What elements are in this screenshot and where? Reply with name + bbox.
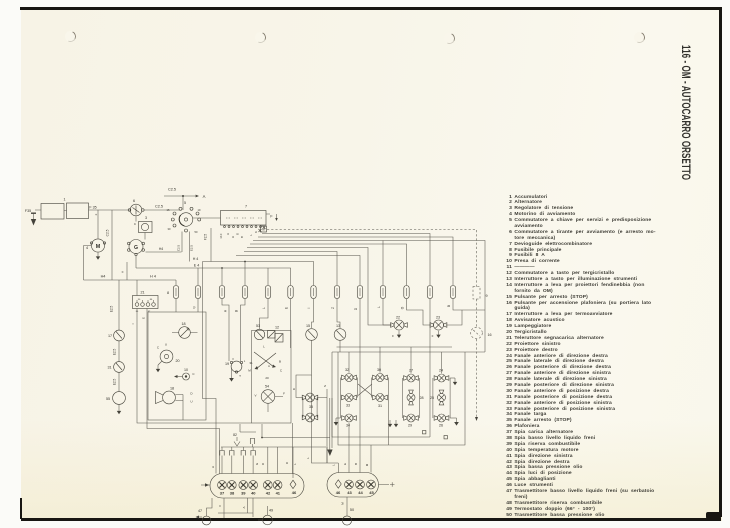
lamp 27 <box>404 369 419 383</box>
svg-text:L: L <box>262 307 266 309</box>
svg-text:E2.5: E2.5 <box>113 378 117 385</box>
svg-text:+: + <box>95 212 98 217</box>
svg-text:22: 22 <box>396 316 400 320</box>
svg-text:I: I <box>131 323 135 324</box>
svg-text:H: H <box>211 466 215 468</box>
svg-text:K: K <box>254 231 258 233</box>
fuse 8A x360 <box>357 286 362 299</box>
dashed wire <box>476 299 478 327</box>
svg-text:D: D <box>190 392 193 396</box>
dashed bus wire to lamp circuit <box>267 230 477 288</box>
lever switch 14 cross <box>248 345 283 381</box>
svg-text:A: A <box>203 194 206 199</box>
svg-text:H 4: H 4 <box>150 275 156 279</box>
pod feed wires right side <box>211 447 297 478</box>
svg-text:X: X <box>232 358 234 361</box>
svg-text:23: 23 <box>436 316 440 320</box>
svg-text:E: E <box>285 307 289 309</box>
svg-text:I2.0: I2.0 <box>219 233 223 238</box>
stop lamp 35 label <box>309 405 313 409</box>
svg-text:B: B <box>447 305 451 307</box>
svg-text:54: 54 <box>265 385 269 389</box>
svg-text:3: 3 <box>145 216 147 220</box>
battery minus lead F35 with ground arrow <box>25 209 36 226</box>
svg-text:E2.5: E2.5 <box>190 245 194 252</box>
arrow into left pod <box>201 483 210 486</box>
lamp rails col1 <box>340 378 357 419</box>
wire fuse453 to lamp 23 right <box>446 299 485 326</box>
svg-text:A: A <box>224 309 228 312</box>
ground below motor 4 <box>96 253 100 260</box>
punch hole 1 <box>65 31 76 42</box>
svg-text:45: 45 <box>369 490 374 495</box>
wire 15 to stop lamps <box>293 341 312 398</box>
svg-text:D: D <box>285 461 289 464</box>
svg-text:H4: H4 <box>159 247 163 251</box>
svg-text:20: 20 <box>175 359 179 363</box>
instrument pod right <box>327 473 379 498</box>
svg-text:L: L <box>244 360 246 363</box>
wire 3 to alternator <box>144 233 146 240</box>
sender 47 <box>196 498 213 525</box>
wire Z to right pod <box>326 447 328 463</box>
bottom border <box>21 518 721 521</box>
svg-text:20: 20 <box>265 376 269 380</box>
svg-text:35: 35 <box>309 405 313 409</box>
power socket 10 <box>174 368 195 380</box>
svg-text:53: 53 <box>256 324 260 328</box>
fuse 8A x222 <box>219 286 224 299</box>
svg-text:C: C <box>192 372 195 376</box>
svg-text:E 4: E 4 <box>194 264 199 268</box>
svg-text:B: B <box>235 310 239 312</box>
fuse 8A x313.5 <box>311 286 316 299</box>
stop lamp 35 lower <box>302 413 318 422</box>
terminal labels under 7 <box>219 231 258 238</box>
svg-text:31: 31 <box>249 361 253 365</box>
svg-text:8: 8 <box>167 291 169 295</box>
wire switch 5 lower stubs <box>177 232 194 262</box>
svg-text:C2.5: C2.5 <box>106 229 110 236</box>
svg-text:Q: Q <box>192 306 196 309</box>
svg-text:L: L <box>263 345 265 349</box>
svg-text:29: 29 <box>408 424 412 428</box>
svg-text:L: L <box>293 463 297 465</box>
battery plus lead label F35 + <box>89 206 97 218</box>
battery 1 (accumulatori) <box>35 198 98 220</box>
svg-text:26: 26 <box>439 424 443 428</box>
gauge 46 diamond left pod <box>290 480 296 488</box>
dashed wire lower <box>475 339 478 421</box>
svg-text:16: 16 <box>487 333 491 337</box>
telltale 45 <box>367 480 376 489</box>
svg-text:Z: Z <box>324 384 326 388</box>
lamp 31 <box>373 394 388 409</box>
svg-text:18: 18 <box>170 387 174 391</box>
svg-text:49: 49 <box>269 509 273 513</box>
stop button 15 <box>306 324 318 340</box>
lamp column feeds <box>349 347 442 373</box>
svg-text:82: 82 <box>233 433 237 437</box>
svg-text:27: 27 <box>409 369 413 373</box>
svg-text:47: 47 <box>198 509 202 513</box>
terminal row under 7 <box>224 225 266 232</box>
dashed fuse 9 <box>473 287 488 300</box>
svg-text:46: 46 <box>336 490 341 495</box>
switch 53 circle <box>254 324 264 340</box>
fuse 8A x453 <box>450 286 455 299</box>
wire A to flasher <box>222 299 229 362</box>
lamp 30 <box>373 368 388 382</box>
ground below headlamp 23 <box>432 331 441 338</box>
dashed plafoniera switch 16 <box>471 327 492 339</box>
wire C2.5 vertical from junction <box>106 210 113 280</box>
lamp 33 <box>342 394 357 408</box>
svg-text:F2.5: F2.5 <box>204 234 208 241</box>
ground right of lamp 26 <box>450 418 459 426</box>
telltale 41 <box>273 481 282 490</box>
svg-text:V: V <box>254 394 256 398</box>
svg-text:21: 21 <box>140 291 144 295</box>
svg-text:41: 41 <box>276 491 281 496</box>
svg-text:F: F <box>392 334 394 338</box>
svg-text:50: 50 <box>350 508 354 512</box>
svg-text:43: 43 <box>347 490 352 495</box>
svg-text:55: 55 <box>106 397 110 401</box>
stub fuse283 x383 <box>382 241 384 286</box>
svg-text:E: E <box>343 463 347 465</box>
wire 21 to H4 bus <box>136 280 138 296</box>
stop lamp rails <box>303 384 327 463</box>
svg-text:4: 4 <box>86 246 88 250</box>
enclosure box bottom right B <box>338 352 465 445</box>
wires below left pod <box>218 498 253 518</box>
wiper motor 20 <box>156 343 180 373</box>
svg-text:18: 18 <box>181 322 185 326</box>
svg-text:M: M <box>96 244 101 250</box>
cab equipment enclosure <box>148 312 206 420</box>
terminal squares <box>423 431 448 439</box>
svg-text:H 4: H 4 <box>193 257 199 261</box>
wire E to lever box <box>285 299 291 349</box>
stub fuse x245 <box>244 262 246 286</box>
svg-text:C2.5: C2.5 <box>177 245 181 252</box>
lamp 28 vertical <box>407 390 424 405</box>
svg-text:F: F <box>270 215 273 219</box>
fuse hooks above pod <box>220 447 256 474</box>
wire 6 down to regulator 3 <box>135 216 137 222</box>
ground below lamp29 area <box>388 420 398 427</box>
lamp 34 <box>342 414 357 428</box>
svg-text:46: 46 <box>292 490 297 495</box>
ground left of lamp 34 <box>334 418 341 426</box>
wire battery plus to motor and switch run <box>98 210 130 239</box>
svg-text:28: 28 <box>419 396 423 400</box>
svg-text:33: 33 <box>346 404 350 408</box>
spark arrow 52 <box>233 433 240 446</box>
wire Z to switch 13 <box>331 299 340 329</box>
wire 6 to switch 5 <box>144 205 180 211</box>
svg-text:L: L <box>377 306 381 308</box>
lamp bus y352 <box>332 351 485 353</box>
wire B to flasher <box>235 299 246 362</box>
pod right feed labels <box>332 463 370 466</box>
svg-text:19: 19 <box>225 362 229 366</box>
telltale 40 <box>249 481 258 490</box>
svg-text:B: B <box>279 360 281 364</box>
svg-text:19: 19 <box>198 208 201 212</box>
left pod labels <box>220 490 297 496</box>
svg-text:31: 31 <box>107 366 111 370</box>
svg-text:A: A <box>268 364 270 368</box>
svg-text:17: 17 <box>108 334 112 338</box>
svg-text:F 35: F 35 <box>89 206 96 210</box>
wire alternator down <box>135 256 137 268</box>
fuse hook mid <box>250 439 254 448</box>
main fuse 8 <box>167 286 179 299</box>
ground below 55 <box>117 405 121 415</box>
svg-text:F35: F35 <box>25 209 31 213</box>
switch 13 <box>334 324 346 340</box>
wire group to pod <box>292 423 294 474</box>
wire A stub to relay <box>121 262 128 280</box>
fuse 8A x406.5 <box>404 286 409 299</box>
svg-text:7: 7 <box>245 205 247 209</box>
headlamp 22 (proiettore sinistro) <box>391 316 408 331</box>
svg-text:34: 34 <box>346 424 350 428</box>
svg-text:30: 30 <box>138 299 141 301</box>
stub fuse x222 <box>221 268 223 286</box>
wire 15 drop to pods <box>306 375 338 473</box>
svg-text:32: 32 <box>345 368 349 372</box>
svg-text:B: B <box>354 463 358 465</box>
svg-text:M: M <box>365 463 369 466</box>
fuse 8A x430 <box>427 286 432 299</box>
headlamp 23 (proiettore destro) <box>430 316 447 331</box>
lamp 29 <box>404 414 419 428</box>
svg-text:31: 31 <box>378 404 382 408</box>
punch hole 2 <box>255 32 266 43</box>
wire 13 down <box>339 341 341 353</box>
svg-text:12: 12 <box>275 326 279 330</box>
telltale 38 <box>227 481 236 490</box>
wire fuse198 to box <box>192 299 198 313</box>
fuse 8A x290.5 <box>288 286 293 299</box>
wire feed left pod horizontal <box>221 446 326 448</box>
bus wire y237 <box>258 237 453 286</box>
svg-text:42: 42 <box>266 491 271 496</box>
bus wire y251 <box>244 252 337 286</box>
switch 12 relay <box>268 326 284 343</box>
svg-text:U: U <box>226 233 230 235</box>
svg-text:V: V <box>218 505 222 507</box>
telltale 42 <box>263 481 272 490</box>
svg-text:C2.5: C2.5 <box>168 188 176 192</box>
charge relay 21 <box>133 291 159 314</box>
svg-text:39: 39 <box>241 491 246 496</box>
wire F output with down arrow <box>266 214 278 221</box>
oil sender 50 <box>341 497 355 525</box>
fuse 8A x268 <box>265 286 270 299</box>
stub fuse x198 <box>197 268 199 286</box>
instrument pod left <box>210 474 304 499</box>
wire 21 down short <box>142 309 220 474</box>
telltale 39 <box>239 481 248 490</box>
bus wire H4 y261 <box>193 257 314 286</box>
wire switch 5 to devioguide 7 <box>193 217 221 219</box>
svg-text:85: 85 <box>136 311 139 313</box>
svg-text:O: O <box>401 306 405 309</box>
svg-text:25: 25 <box>430 396 434 400</box>
top border <box>20 7 722 10</box>
switch group enclosure <box>252 331 292 424</box>
wire motor to H4 bus <box>84 246 92 281</box>
lamp 32 <box>342 368 357 382</box>
lamp rails col3 <box>402 378 419 418</box>
starter motor M 4 <box>86 239 106 252</box>
svg-text:A: A <box>242 506 246 508</box>
alternator G 2 <box>128 240 145 256</box>
telltale 43 <box>345 480 354 489</box>
svg-text:10: 10 <box>184 368 188 372</box>
right border <box>719 8 722 517</box>
wire E2.5 middle <box>113 341 120 362</box>
bus wire y268 stub <box>267 268 269 286</box>
svg-text:40: 40 <box>251 491 256 496</box>
right pod labels <box>336 490 375 495</box>
ground below flasher 19 <box>229 368 241 382</box>
crossover wires <box>358 384 372 396</box>
gauge 46 diamond right pod <box>335 480 341 488</box>
svg-text:A: A <box>121 271 125 273</box>
lamp 26 <box>434 414 449 428</box>
wire from lamp54 F to bus <box>240 424 330 438</box>
wire L to switch 53 <box>260 299 269 330</box>
wire C2.5 arrow to node A <box>164 188 206 211</box>
wire fuse430 long drop <box>429 299 431 438</box>
fuse 8A x337 <box>334 286 339 299</box>
ground right of lamp 24 <box>450 378 457 385</box>
svg-text:G: G <box>134 245 138 251</box>
svg-text:86: 86 <box>150 299 153 301</box>
svg-text:37: 37 <box>220 491 225 496</box>
telltale 44 <box>356 480 365 489</box>
vertical page title <box>679 45 691 180</box>
arrow plus right pod <box>379 482 395 486</box>
svg-text:50: 50 <box>195 230 198 234</box>
svg-text:L: L <box>332 464 336 466</box>
svg-text:1: 1 <box>63 198 65 202</box>
interior lamp 36 circle <box>172 322 198 338</box>
svg-text:L: L <box>249 234 253 236</box>
flasher 19 (lampeggiatore) <box>225 358 246 373</box>
svg-text:Z: Z <box>331 307 335 309</box>
svg-text:6: 6 <box>133 199 135 203</box>
bus wire y240 <box>253 241 485 353</box>
wire to headlamp 22 <box>377 299 392 326</box>
svg-text:5: 5 <box>184 201 186 205</box>
svg-text:F: F <box>283 392 285 396</box>
legend list <box>503 195 671 519</box>
svg-text:I: I <box>307 307 311 308</box>
svg-text:E2.5: E2.5 <box>113 348 117 355</box>
thermo switch 17 <box>108 330 124 341</box>
wire fuse176 to box <box>175 299 177 313</box>
svg-text:E2.5: E2.5 <box>110 305 114 312</box>
bold feed arrow between pods <box>327 398 332 456</box>
svg-text:T: T <box>239 374 241 378</box>
wire H4 alternator right <box>146 247 182 252</box>
bus wire y233 <box>262 234 430 286</box>
svg-text:9: 9 <box>485 294 487 298</box>
wire E2.5 upper <box>110 280 120 330</box>
stub fuse x176 <box>175 280 177 286</box>
ground below headlamp 22 <box>392 331 401 338</box>
voltage regulator 3 <box>134 216 152 233</box>
svg-text:C2.5: C2.5 <box>155 205 163 209</box>
bus wire y255 <box>236 256 360 286</box>
punch hole 4 <box>634 32 645 43</box>
lamp bus y347 <box>337 346 453 348</box>
svg-text:13: 13 <box>336 324 340 328</box>
component 55 circle <box>106 392 125 405</box>
bottom-left page edge <box>20 498 22 519</box>
lamp 24 <box>434 369 449 383</box>
bus wire y244 <box>250 244 407 286</box>
wire to headlamp 23 left <box>401 299 432 326</box>
key switch 5 <box>167 201 201 234</box>
terminal M at dashed start <box>261 226 267 232</box>
component 31 circle <box>107 362 124 373</box>
long wire left drop <box>203 262 217 474</box>
fuse 8A x198 <box>195 286 200 299</box>
svg-text:M: M <box>341 502 345 505</box>
svg-text:U: U <box>165 343 167 347</box>
svg-text:C: C <box>134 222 137 226</box>
svg-text:H: H <box>293 387 295 391</box>
telltale 37 <box>218 481 227 490</box>
fuse 8A x245 <box>242 286 247 299</box>
devioguide elettrocombinatore 7 <box>221 205 267 226</box>
svg-text:24: 24 <box>439 369 443 373</box>
fuse 8A x383 <box>380 286 385 299</box>
bus wire E4 y268 <box>136 261 291 286</box>
thermostat 49 <box>253 506 273 525</box>
svg-text:F: F <box>432 334 434 338</box>
svg-text:O: O <box>236 232 240 235</box>
wire E2.5 lower <box>113 373 120 392</box>
bottom-right corner blob <box>706 512 721 519</box>
svg-text:U: U <box>190 400 192 404</box>
label F2.5 vertical <box>204 228 212 262</box>
wire 21 down long to pod <box>131 309 252 424</box>
svg-text:E: E <box>142 317 146 319</box>
lamp 25 vertical <box>430 390 446 405</box>
svg-text:M: M <box>248 369 251 373</box>
svg-text:B: B <box>240 236 244 238</box>
svg-text:30: 30 <box>168 227 171 231</box>
svg-text:C: C <box>157 346 160 350</box>
pull switch 6 <box>128 199 144 216</box>
svg-text:L: L <box>306 457 310 459</box>
svg-text:30: 30 <box>377 368 381 372</box>
horn 18 (avvisatore acustico) <box>156 387 194 421</box>
svg-text:O: O <box>261 462 265 465</box>
lamp rails col4 <box>433 378 450 418</box>
svg-text:C: C <box>280 369 283 373</box>
drops to pod right <box>349 423 371 473</box>
lamp rails col2 <box>371 378 388 446</box>
